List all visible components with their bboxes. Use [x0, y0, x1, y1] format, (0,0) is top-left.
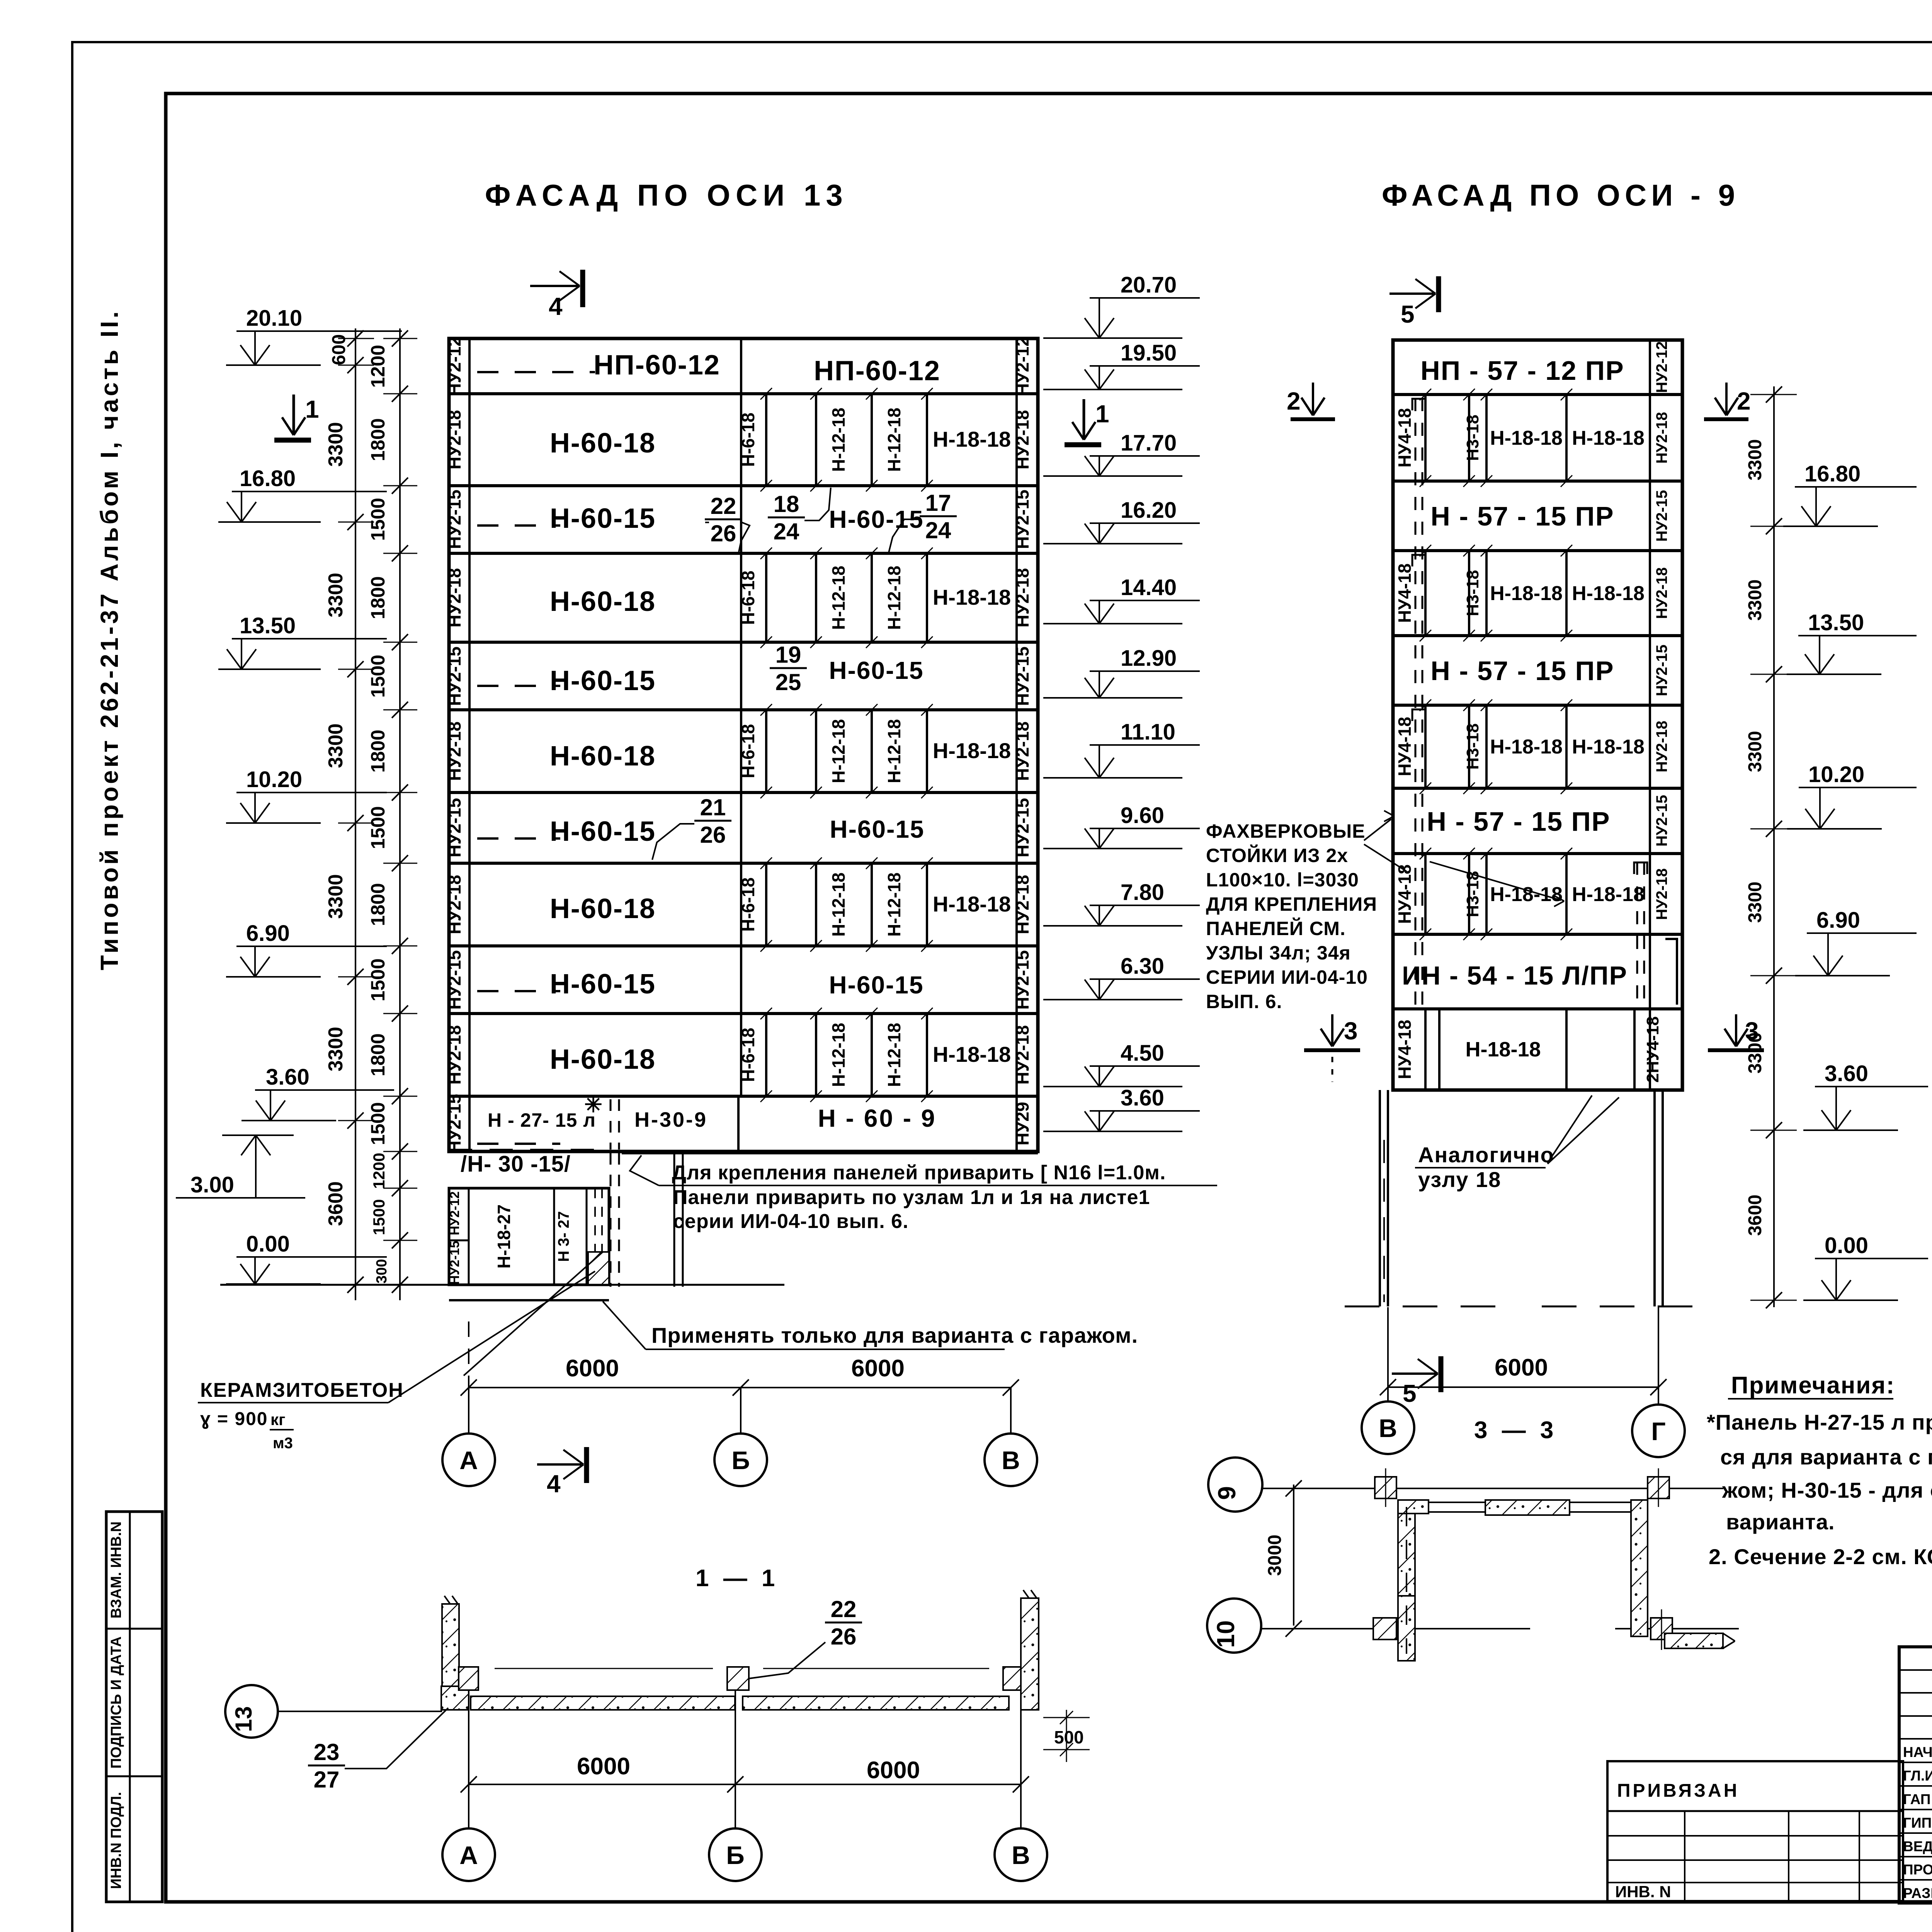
garage leader X — [464, 1252, 603, 1376]
svg-text:ГАП: ГАП — [1903, 1791, 1930, 1807]
svg-text:НУ4-18: НУ4-18 — [1395, 717, 1415, 776]
svg-text:3.00: 3.00 — [190, 1172, 234, 1197]
svg-text:3300: 3300 — [1745, 580, 1765, 621]
svg-text:26: 26 — [700, 822, 726, 848]
svg-text:Н 3- 27: Н 3- 27 — [555, 1211, 572, 1262]
svg-text:0.00: 0.00 — [246, 1231, 290, 1257]
svg-text:НАЧ.МАСТ.: НАЧ.МАСТ. — [1903, 1744, 1932, 1760]
plan 3-3 connecting double line Г — [1570, 1502, 1631, 1503]
svg-text:13: 13 — [231, 1706, 257, 1732]
axis circle А section — [442, 1828, 495, 1881]
facade-2 section mark 2 right — [1704, 417, 1748, 421]
svg-text:3300: 3300 — [325, 874, 347, 919]
attachment table — [1607, 1761, 1903, 1901]
facade-2 bottom dim — [1388, 1386, 1658, 1388]
svg-text:1500: 1500 — [370, 1199, 388, 1235]
svg-text:Н-12-18: Н-12-18 — [828, 408, 849, 472]
svg-text:ДЛЯ КРЕПЛЕНИЯ: ДЛЯ КРЕПЛЕНИЯ — [1206, 893, 1377, 915]
svg-text:Б: Б — [726, 1841, 744, 1869]
svg-text:17: 17 — [925, 490, 951, 516]
facade-1 right label column — [1015, 338, 1018, 1151]
plan 3-3 node square В bottom — [1373, 1618, 1396, 1639]
svg-text:ся для варианта с гара-: ся для варианта с гара- — [1720, 1445, 1932, 1469]
svg-text:3: 3 — [1344, 1017, 1358, 1045]
svg-text:3300: 3300 — [325, 422, 347, 467]
svg-text:Н-60-18: Н-60-18 — [550, 428, 656, 459]
section 1-1 floor slab left span — [471, 1696, 735, 1710]
svg-text:Н-18-18: Н-18-18 — [1572, 582, 1645, 605]
svg-text:Н-12-18: Н-12-18 — [884, 566, 904, 630]
svg-text:3300: 3300 — [325, 573, 347, 617]
svg-text:1 — 1: 1 — 1 — [696, 1565, 779, 1592]
svg-text:НУ2-18: НУ2-18 — [1653, 721, 1670, 772]
svg-text:22: 22 — [711, 493, 736, 519]
svg-text:Н-18-18: Н-18-18 — [1490, 427, 1563, 449]
facade-2 section mark 5 top — [1389, 293, 1434, 295]
section 1-1 left wall — [442, 1604, 459, 1710]
svg-text:НУ2-18: НУ2-18 — [1653, 412, 1670, 464]
svg-text:НУ2-18: НУ2-18 — [1653, 868, 1670, 920]
svg-text:14.40: 14.40 — [1121, 575, 1177, 600]
svg-text:0.00: 0.00 — [1825, 1233, 1868, 1258]
svg-text:РАЗРАБ.: РАЗРАБ. — [1903, 1885, 1932, 1901]
svg-text:16.80: 16.80 — [240, 466, 296, 491]
svg-text:ПРИВЯЗАН: ПРИВЯЗАН — [1617, 1781, 1739, 1801]
facade-1 dashed join lines — [477, 371, 595, 373]
svg-text:3600: 3600 — [325, 1181, 347, 1226]
svg-text:1500: 1500 — [367, 958, 389, 1001]
svg-text:16.20: 16.20 — [1121, 498, 1177, 523]
svg-text:20.10: 20.10 — [246, 306, 302, 331]
svg-text:10.20: 10.20 — [1808, 762, 1864, 787]
svg-text:Н-6-18: Н-6-18 — [738, 878, 758, 932]
svg-text:ВЫП. 6.: ВЫП. 6. — [1206, 991, 1282, 1012]
svg-text:НУ2-18: НУ2-18 — [1012, 410, 1032, 469]
plan 3-3 node square В top — [1375, 1477, 1396, 1498]
svg-text:26: 26 — [711, 520, 736, 546]
svg-text:L100×10. l=3030: L100×10. l=3030 — [1206, 869, 1359, 891]
facade-1 section mark 1 left — [293, 395, 295, 435]
svg-text:20.70: 20.70 — [1121, 272, 1177, 298]
facade-1 outer box — [449, 338, 1038, 1151]
svg-text:1500: 1500 — [367, 655, 389, 697]
svg-text:ИНВ. N: ИНВ. N — [1615, 1883, 1671, 1901]
svg-text:4: 4 — [547, 1470, 561, 1498]
svg-text:Панели приварить по узлам: Панели приварить по узлам 1л и 1я на лис… — [673, 1186, 1150, 1209]
plan 3-3 long panel — [1485, 1500, 1570, 1515]
facade-2 section mark 3 left — [1304, 1048, 1360, 1052]
svg-text:3.60: 3.60 — [1825, 1061, 1868, 1086]
basement hatched pier — [588, 1252, 609, 1285]
svg-text:НУ2-18: НУ2-18 — [1012, 568, 1032, 628]
svg-text:3.60: 3.60 — [266, 1065, 310, 1090]
svg-text:1800: 1800 — [367, 883, 389, 926]
svg-text:А: А — [459, 1841, 478, 1869]
svg-text:Н-60-18: Н-60-18 — [550, 1044, 656, 1075]
svg-text:УЗЛЫ 34л; 34я: УЗЛЫ 34л; 34я — [1206, 942, 1351, 964]
svg-text:узлу 18: узлу 18 — [1418, 1167, 1501, 1192]
section 1-1 floor line — [495, 1668, 713, 1669]
svg-text:серии ИИ-04-10 вып. 6.: серии ИИ-04-10 вып. 6. — [673, 1210, 909, 1233]
section 1-1 axis stems — [468, 1690, 469, 1828]
svg-text:26: 26 — [831, 1624, 857, 1650]
svg-text:1800: 1800 — [367, 576, 389, 619]
svg-text:НУ2-12: НУ2-12 — [444, 337, 464, 396]
svg-text:ВЗАМ. ИНВ.N: ВЗАМ. ИНВ.N — [108, 1521, 124, 1618]
axis circle Б facade — [714, 1434, 767, 1486]
axis circle В facade — [985, 1434, 1037, 1486]
svg-text:м3: м3 — [273, 1435, 293, 1452]
svg-text:НУ2-15: НУ2-15 — [444, 490, 464, 549]
svg-text:2НУ4-18: 2НУ4-18 — [1643, 1016, 1662, 1083]
facade-1 section mark 1 right — [1083, 399, 1085, 440]
facade-2 row lines — [1393, 393, 1682, 396]
svg-text:НУ2-18: НУ2-18 — [444, 568, 464, 628]
svg-text:17.70: 17.70 — [1121, 430, 1177, 456]
svg-text:27: 27 — [314, 1767, 340, 1793]
axis circle 13 section 1-1 — [225, 1685, 278, 1738]
plan 3-3 node square Г top — [1648, 1477, 1669, 1498]
svg-text:ГИП: ГИП — [1903, 1815, 1932, 1831]
svg-text:Н-60-15: Н-60-15 — [829, 656, 923, 684]
plan 3-3 axis line 10 — [1261, 1628, 1530, 1629]
section 1-1 floor slab right span — [743, 1696, 1009, 1710]
svg-text:Н-12-18: Н-12-18 — [828, 566, 849, 630]
facade-2 below-ground columns — [1379, 1090, 1381, 1306]
basement bottom line — [449, 1299, 609, 1301]
svg-text:13.50: 13.50 — [240, 613, 296, 638]
svg-text:НУ2-15: НУ2-15 — [447, 1241, 462, 1285]
facade-2 bottom row — [1424, 1009, 1427, 1090]
left margin stamp boxes — [106, 1512, 162, 1902]
svg-text:Н-60-15: Н-60-15 — [829, 971, 923, 999]
facade-2 sub rows — [1424, 395, 1427, 481]
svg-text:НУ4-18: НУ4-18 — [1395, 563, 1415, 623]
svg-text:НУ29: НУ29 — [1012, 1102, 1032, 1145]
svg-text:1500: 1500 — [367, 806, 389, 849]
facade-1 row lines — [449, 392, 1038, 395]
svg-text:1: 1 — [1095, 400, 1109, 428]
svg-text:Н-18-18: Н-18-18 — [933, 585, 1011, 609]
svg-text:10: 10 — [1212, 1620, 1240, 1648]
svg-text:ИН - 54 - 15 Л/ПР: ИН - 54 - 15 Л/ПР — [1402, 961, 1628, 990]
svg-text:6000: 6000 — [867, 1757, 920, 1784]
svg-text:1: 1 — [305, 395, 319, 423]
svg-text:В: В — [1002, 1446, 1020, 1475]
svg-text:18: 18 — [774, 491, 799, 517]
svg-text:21: 21 — [700, 794, 726, 820]
svg-text:Н-6-18: Н-6-18 — [738, 413, 758, 467]
axis circle В facade2 — [1362, 1401, 1414, 1454]
svg-text:ИНВ.N ПОДЛ.: ИНВ.N ПОДЛ. — [108, 1792, 124, 1889]
svg-text:1500: 1500 — [367, 498, 389, 541]
svg-text:НУ4-18: НУ4-18 — [1395, 1020, 1415, 1079]
svg-text:Н-60-15: Н-60-15 — [550, 816, 656, 847]
svg-text:Н-18-18: Н-18-18 — [1465, 1038, 1541, 1061]
svg-text:Н-60-18: Н-60-18 — [550, 893, 656, 924]
svg-text:Н-18-18: Н-18-18 — [1490, 883, 1563, 906]
svg-text:НУ4-18: НУ4-18 — [1395, 864, 1415, 924]
svg-text:6000: 6000 — [1495, 1354, 1548, 1381]
facade-1 left label column — [468, 338, 471, 1151]
svg-text:НУ2-15: НУ2-15 — [444, 950, 464, 1010]
weld note leader — [630, 1155, 659, 1185]
svg-text:Типовой проект 262-21-37: Типовой проект 262-21-37 Альбом I, часть… — [95, 309, 123, 970]
svg-text:1800: 1800 — [367, 1033, 389, 1076]
facade-2 right label column — [1649, 340, 1651, 1090]
svg-text:6000: 6000 — [566, 1355, 619, 1382]
svg-text:12.90: 12.90 — [1121, 646, 1177, 671]
svg-text:3300: 3300 — [325, 1027, 347, 1071]
plan 3-3 pier В bottom — [1398, 1596, 1415, 1661]
svg-text:НУ4-18: НУ4-18 — [1395, 408, 1415, 468]
svg-text:А: А — [459, 1446, 478, 1475]
svg-text:✳: ✳ — [584, 1092, 602, 1117]
svg-text:НП - 57 - 12 ПР: НП - 57 - 12 ПР — [1420, 355, 1624, 386]
section 1-1 left corner block — [441, 1686, 469, 1710]
svg-text:Н-12-18: Н-12-18 — [828, 872, 849, 937]
svg-text:Н-18-18: Н-18-18 — [933, 1042, 1011, 1066]
svg-text:*Панель Н-27-15 л принимает-: *Панель Н-27-15 л принимает- — [1707, 1410, 1932, 1434]
plan 3-3 bottom wall Г — [1665, 1633, 1723, 1648]
svg-text:Н - 57 - 15 ПР: Н - 57 - 15 ПР — [1430, 501, 1614, 531]
facade-2 right dim ladder — [1773, 386, 1775, 1307]
svg-text:НУ2-18: НУ2-18 — [1012, 875, 1032, 934]
svg-text:НУ2-15: НУ2-15 — [444, 798, 464, 857]
plan 3-3 axis line 9 — [1262, 1488, 1723, 1489]
section 1-1 node square at Б — [727, 1667, 749, 1690]
facade-2 stand top hook — [1665, 939, 1677, 1005]
svg-text:3300: 3300 — [1745, 882, 1765, 923]
facade-2 fachwerk dashed stands — [1415, 398, 1417, 1005]
svg-text:ФАХВЕРКОВЫЕ: ФАХВЕРКОВЫЕ — [1206, 820, 1366, 842]
svg-text:23: 23 — [314, 1739, 340, 1765]
svg-text:/Н- 30 -15/: /Н- 30 -15/ — [461, 1151, 571, 1177]
svg-text:1800: 1800 — [367, 418, 389, 461]
svg-text:11.10: 11.10 — [1121, 719, 1175, 745]
svg-text:Н3-18: Н3-18 — [1463, 871, 1482, 917]
svg-text:Применять только для вариан: Применять только для варианта с гаражом. — [651, 1323, 1138, 1347]
facade-2 section mark 3 right — [1708, 1048, 1764, 1052]
facade-1 basement block — [449, 1188, 609, 1285]
svg-text:Н-18-18: Н-18-18 — [1572, 736, 1645, 758]
svg-text:Н-12-18: Н-12-18 — [828, 719, 849, 783]
svg-text:3 — 3: 3 — 3 — [1474, 1417, 1557, 1444]
axis circle Б section — [709, 1828, 762, 1881]
svg-text:ПАНЕЛЕЙ СМ.: ПАНЕЛЕЙ СМ. — [1206, 917, 1346, 939]
svg-text:жом; Н-30-15 - для основного: жом; Н-30-15 - для основного — [1722, 1478, 1932, 1502]
svg-text:Н-18-27: Н-18-27 — [494, 1204, 514, 1269]
svg-text:5: 5 — [1403, 1379, 1417, 1407]
keramzit leader — [388, 1271, 595, 1403]
svg-text:6.90: 6.90 — [1816, 908, 1860, 933]
svg-text:500: 500 — [1054, 1727, 1084, 1747]
section 1-1 dim line 6000+6000 — [469, 1784, 1021, 1785]
facade-1 section mark 4 — [530, 285, 578, 287]
svg-text:6000: 6000 — [851, 1355, 905, 1382]
svg-text:300: 300 — [374, 1259, 390, 1283]
svg-text:1500: 1500 — [367, 1102, 389, 1145]
plan 3-3 axis circle 9 — [1208, 1458, 1262, 1512]
svg-text:НУ2-18: НУ2-18 — [444, 1025, 464, 1085]
axis circle В section — [995, 1828, 1047, 1881]
svg-text:Н3-18: Н3-18 — [1463, 723, 1482, 770]
svg-text:1200: 1200 — [370, 1153, 388, 1189]
svg-text:24: 24 — [925, 517, 951, 543]
svg-text:25: 25 — [776, 669, 801, 695]
svg-text:кг: кг — [270, 1410, 286, 1429]
plan 3-3 node square Г bottom — [1651, 1618, 1672, 1639]
svg-text:ФАСАД ПО ОСИ - 9: ФАСАД ПО ОСИ - 9 — [1382, 178, 1740, 212]
svg-text:НП-60-12: НП-60-12 — [594, 350, 720, 381]
svg-text:НУ2-15: НУ2-15 — [1012, 950, 1032, 1010]
facade-1 axis stems — [468, 1388, 469, 1434]
svg-text:СТОЙКИ ИЗ 2х: СТОЙКИ ИЗ 2х — [1206, 844, 1348, 866]
svg-text:НУ2-15: НУ2-15 — [1012, 646, 1032, 706]
svg-text:Н-18-18: Н-18-18 — [933, 738, 1011, 763]
facade-1 garage row bottom lines — [449, 1149, 608, 1151]
svg-text:3300: 3300 — [1745, 1032, 1765, 1074]
svg-text:Н-60-18: Н-60-18 — [550, 586, 656, 617]
svg-text:НУ2-15: НУ2-15 — [444, 1094, 464, 1153]
svg-text:Н-6-18: Н-6-18 — [738, 724, 758, 779]
svg-text:1200: 1200 — [367, 345, 389, 388]
svg-text:НУ2-18: НУ2-18 — [444, 875, 464, 934]
svg-text:Н-60-18: Н-60-18 — [550, 741, 656, 772]
svg-text:НУ2-15: НУ2-15 — [1012, 798, 1032, 857]
svg-text:Н-6-18: Н-6-18 — [738, 571, 758, 625]
svg-text:2: 2 — [1737, 387, 1751, 415]
plan 3-3 wall at В — [1398, 1500, 1415, 1661]
plan 3-3 dim 3000 — [1293, 1485, 1294, 1626]
svg-text:9.60: 9.60 — [1121, 803, 1164, 828]
svg-text:НУ2-18: НУ2-18 — [1012, 1025, 1032, 1085]
svg-text:4.50: 4.50 — [1121, 1041, 1164, 1066]
section 1-1 right wall — [1021, 1598, 1039, 1710]
facade-1 sub columns in 1800 rows — [765, 394, 767, 486]
svg-text:Н-18-18: Н-18-18 — [1572, 427, 1645, 449]
svg-text:6.30: 6.30 — [1121, 954, 1164, 979]
svg-text:В: В — [1012, 1841, 1030, 1869]
plan 3-3 axis circle 10 — [1207, 1599, 1261, 1653]
svg-text:Для крепления панелей прива: Для крепления панелей приварить [ N16 l=… — [672, 1162, 1166, 1184]
section 1-1 node square at A — [459, 1667, 478, 1690]
svg-text:7.80: 7.80 — [1121, 880, 1164, 905]
svg-text:ɣ = 900: ɣ = 900 — [200, 1409, 268, 1429]
svg-text:Примечания:: Примечания: — [1731, 1372, 1895, 1399]
svg-text:9: 9 — [1213, 1486, 1241, 1500]
svg-text:В: В — [1379, 1414, 1397, 1442]
svg-text:Н - 27- 15 л: Н - 27- 15 л — [488, 1109, 596, 1131]
facade-2 section mark 5 bottom — [1392, 1372, 1436, 1375]
fachwerk note leaders — [1364, 819, 1391, 840]
axis circle А facade — [442, 1434, 495, 1486]
svg-text:Н-18-18: Н-18-18 — [1572, 883, 1645, 906]
svg-text:Н-12-18: Н-12-18 — [884, 872, 904, 937]
svg-text:5: 5 — [1401, 300, 1415, 328]
svg-text:НУ2-15: НУ2-15 — [1653, 645, 1670, 696]
svg-text:НП-60-12: НП-60-12 — [814, 355, 940, 386]
svg-text:Н - 57 - 15 ПР: Н - 57 - 15 ПР — [1430, 656, 1614, 686]
svg-text:13.50: 13.50 — [1808, 610, 1864, 635]
svg-text:24: 24 — [774, 519, 799, 544]
svg-text:СЕРИИ ИИ-04-10: СЕРИИ ИИ-04-10 — [1206, 966, 1368, 988]
facade-2 outer box — [1393, 340, 1682, 1090]
svg-text:3300: 3300 — [325, 723, 347, 768]
svg-text:3000: 3000 — [1265, 1535, 1285, 1576]
title block left rows — [1899, 1669, 1932, 1671]
svg-text:Н-60-15: Н-60-15 — [550, 503, 656, 534]
svg-text:600: 600 — [329, 334, 349, 365]
title block outer — [1899, 1647, 1932, 1903]
svg-text:Н-30-9: Н-30-9 — [634, 1108, 707, 1131]
analogично leaders — [1548, 1095, 1592, 1163]
svg-text:16.80: 16.80 — [1804, 461, 1861, 486]
svg-text:6.90: 6.90 — [246, 921, 290, 946]
svg-text:3300: 3300 — [1745, 731, 1765, 772]
svg-text:НУ2-15: НУ2-15 — [1012, 490, 1032, 549]
svg-text:НУ2-18: НУ2-18 — [444, 410, 464, 469]
svg-text:10.20: 10.20 — [246, 767, 302, 792]
facade-2 ground dashes — [1345, 1306, 1519, 1308]
svg-text:3.60: 3.60 — [1121, 1085, 1164, 1111]
svg-text:Н-60-15: Н-60-15 — [550, 969, 656, 1000]
svg-text:3300: 3300 — [1745, 439, 1765, 481]
svg-text:Н3-18: Н3-18 — [1463, 570, 1482, 616]
facade-2 section mark 2 left — [1291, 417, 1335, 421]
svg-text:2. Сечение 2-2 см. КС-24.: 2. Сечение 2-2 см. КС-24. — [1709, 1544, 1932, 1569]
facade-1 ground line — [220, 1284, 784, 1286]
svg-text:19: 19 — [776, 642, 801, 668]
svg-text:ГЛ.ИНЖ.М: ГЛ.ИНЖ.М — [1903, 1768, 1932, 1784]
svg-text:НУ2-18: НУ2-18 — [1653, 567, 1670, 619]
svg-text:варианта.: варианта. — [1726, 1510, 1835, 1534]
svg-text:Н - 57 - 15 ПР: Н - 57 - 15 ПР — [1427, 806, 1610, 837]
plan 3-3 wall at Г — [1631, 1500, 1648, 1636]
svg-text:ПРОВЕР.: ПРОВЕР. — [1903, 1862, 1932, 1878]
svg-text:Н-18-18: Н-18-18 — [1490, 736, 1563, 758]
svg-text:НУ2-15: НУ2-15 — [1653, 490, 1670, 542]
svg-text:Н-18-18: Н-18-18 — [933, 427, 1011, 451]
facade-2 axis stems — [1387, 1307, 1389, 1400]
svg-text:ФАСАД ПО ОСИ 13: ФАСАД ПО ОСИ 13 — [485, 178, 848, 212]
svg-text:1800: 1800 — [367, 730, 389, 772]
svg-text:КЕРАМЗИТОБЕТОН: КЕРАМЗИТОБЕТОН — [200, 1379, 404, 1401]
svg-text:Н-12-18: Н-12-18 — [884, 719, 904, 783]
svg-text:НУ2-15: НУ2-15 — [444, 646, 464, 706]
svg-text:Аналогично: Аналогично — [1418, 1143, 1554, 1167]
svg-text:Г: Г — [1651, 1417, 1665, 1446]
svg-text:Н-12-18: Н-12-18 — [828, 1023, 849, 1087]
svg-text:НУ2-18: НУ2-18 — [444, 721, 464, 781]
svg-text:Н - 60 - 9: Н - 60 - 9 — [818, 1104, 937, 1132]
svg-text:ПОДПИСЬ И ДАТА: ПОДПИСЬ И ДАТА — [108, 1636, 124, 1769]
axis circle Г facade2 — [1632, 1405, 1685, 1457]
svg-text:НУ2-12: НУ2-12 — [447, 1191, 462, 1235]
section 1-1 node square at В — [1003, 1667, 1023, 1690]
facade-1 center divider — [740, 338, 742, 1096]
svg-text:4: 4 — [549, 293, 563, 320]
plan 3-3 В column axis dash — [1406, 1507, 1407, 1654]
svg-text:НУ2-15: НУ2-15 — [1653, 795, 1670, 847]
facade-1 left dim ladder lines — [355, 328, 356, 1300]
svg-text:Н-18-18: Н-18-18 — [933, 892, 1011, 916]
svg-text:НУ2-12: НУ2-12 — [1012, 337, 1032, 396]
svg-text:6000: 6000 — [577, 1753, 630, 1780]
plan 3-3 connecting double line В — [1429, 1502, 1485, 1503]
svg-text:Б: Б — [731, 1446, 750, 1475]
svg-text:Н-6-18: Н-6-18 — [738, 1028, 758, 1082]
